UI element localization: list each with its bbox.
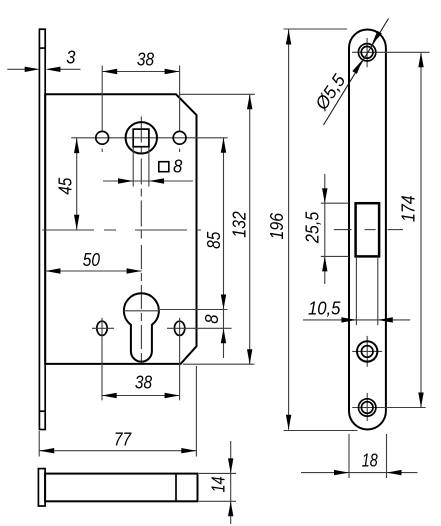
- oval vertical centerline + extension left: [101, 318, 103, 401]
- svg-text:8: 8: [202, 315, 222, 324]
- dimension 77 (body width): [39, 366, 196, 457]
- oval holes horizontal centerline right / ext for dim 8: [167, 327, 232, 329]
- cylinder hole horizontal center tick: [124, 310, 160, 312]
- vertical centerline (lower, through cylinder hole): [140, 245, 142, 364]
- svg-text:8: 8: [173, 157, 182, 177]
- faceplate plate outline (stadium shape): [349, 30, 386, 430]
- svg-text:25,5: 25,5: [303, 211, 323, 244]
- svg-text:14: 14: [209, 477, 229, 493]
- lock body outline with chamfered right corners: [45, 94, 196, 364]
- dimension 85 (hub centre to cylinder centre): [159, 138, 228, 328]
- screw hole top-right: [173, 131, 186, 144]
- svg-text:85: 85: [204, 231, 224, 249]
- dimension 38 (top screw holes spacing): [102, 50, 179, 153]
- bottom screw hole with cross: [352, 393, 426, 421]
- horizontal dash-dot centerline mid body: [42, 229, 201, 231]
- top screw hole with cross: [352, 38, 430, 67]
- dimension 174 (screw holes spacing): [399, 52, 424, 407]
- side view lock body bar: [45, 474, 197, 502]
- dimension 132 (body height): [180, 94, 255, 364]
- dimension 25,5 (latch hole height): [303, 174, 349, 284]
- square spindle hole 8x8: [133, 129, 149, 147]
- svg-text:45: 45: [56, 177, 76, 195]
- dimension 14 (body thickness): [199, 441, 236, 524]
- dimension 3 (faceplate thickness): [7, 48, 80, 73]
- vertical centerline (upper, through spindle hub): [140, 117, 142, 242]
- oval screw hole bottom-right: [174, 321, 184, 335]
- faceplate strip (front view, 3mm edge): [39, 29, 45, 429]
- svg-text:18: 18: [362, 451, 378, 471]
- oval vertical centerline + extension right: [179, 318, 181, 401]
- svg-text:77: 77: [114, 430, 132, 450]
- svg-text:50: 50: [83, 250, 100, 270]
- svg-text:38: 38: [137, 50, 154, 70]
- latch hole thick rectangle: [356, 203, 380, 256]
- svg-text:196: 196: [267, 212, 287, 239]
- svg-text:132: 132: [230, 211, 250, 238]
- dimension square 8 (spindle square): [103, 148, 193, 187]
- dimension 8 (cylinder centre to oval holes line): [202, 315, 226, 358]
- plate horizontal dashed centreline: [334, 229, 403, 231]
- screw hole top-left: [96, 131, 109, 144]
- svg-text:3: 3: [66, 48, 75, 68]
- oval screw hole bottom-left: [97, 321, 107, 335]
- diameter 5,5 leader line with arrows: [311, 19, 389, 126]
- dimension 196 (plate length): [267, 29, 358, 431]
- dimension 10,5 (latch hole width): [303, 298, 410, 322]
- dimension 38 (bottom oval holes spacing): [102, 373, 180, 399]
- middle fixing screw hole with cross: [352, 336, 382, 367]
- dimension 50 (backset): [45, 250, 141, 274]
- dimension 45 (hub centre to body centreline): [56, 138, 80, 230]
- spindle hub circle: [126, 122, 157, 153]
- svg-text:38: 38: [135, 373, 152, 393]
- euro cylinder hole: [124, 293, 159, 361]
- horizontal centerline through top holes: [71, 137, 227, 139]
- side view faceplate cap: [38, 469, 45, 506]
- dimension 18 (plate width): [301, 434, 418, 478]
- oval holes horizontal centerline left: [92, 327, 114, 329]
- side view divider line: [175, 474, 177, 502]
- svg-text:10,5: 10,5: [308, 298, 341, 318]
- latch hole side lines below: [356, 257, 377, 325]
- svg-text:174: 174: [399, 195, 419, 222]
